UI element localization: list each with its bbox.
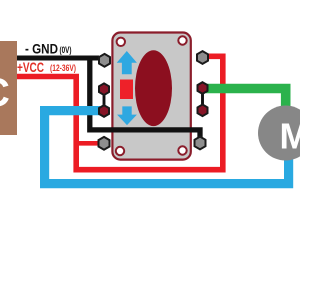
wire: green motor lead bbox=[206, 89, 286, 113]
svg-text:M: M bbox=[280, 116, 301, 157]
screw hole bottom-left bbox=[116, 147, 124, 155]
screw hole bottom-right bbox=[178, 146, 186, 154]
wire: black GND net bbox=[17, 58, 200, 138]
terminal R4 (gray hex) bbox=[195, 137, 206, 150]
svg-text:(0V): (0V) bbox=[60, 45, 72, 55]
link bar between left middle terminals bbox=[103, 93, 106, 107]
label +VCC (12-36V) bbox=[17, 59, 76, 75]
wire: blue motor lead bbox=[45, 111, 289, 184]
terminal R1 (gray hex) bbox=[197, 51, 208, 64]
screw hole top-right bbox=[178, 36, 186, 44]
link bar between right middle terminals bbox=[201, 92, 204, 106]
potentiometer knob (dark red ellipse) bbox=[135, 50, 172, 126]
terminal L2 (dark red hex) bbox=[99, 83, 109, 95]
terminal L4 (gray hex, VCC in) bbox=[99, 137, 110, 150]
screw hole top-left bbox=[117, 38, 125, 46]
wire: red +VCC net bbox=[17, 56, 223, 169]
terminal L3 (dark red hex) bbox=[99, 105, 109, 117]
svg-text:C: C bbox=[0, 71, 10, 115]
DC power supply PSU (cropped at left edge) bbox=[0, 41, 17, 135]
svg-text:(12-36V): (12-36V) bbox=[50, 63, 76, 73]
terminal R3 (dark red hex) bbox=[198, 105, 208, 117]
svg-text:- GND: - GND bbox=[25, 41, 58, 57]
motor M1 bbox=[258, 106, 313, 161]
module U1: speed controller board bbox=[112, 33, 190, 160]
blue up arrow (speed up) bbox=[117, 51, 137, 74]
label - GND (0V) bbox=[25, 41, 72, 57]
red stop square bbox=[120, 80, 133, 100]
terminal R2 (dark red hex, motor out) bbox=[198, 82, 208, 94]
svg-text:+VCC: +VCC bbox=[17, 59, 44, 75]
blue down arrow (speed down) bbox=[117, 106, 137, 125]
terminal L1 (gray hex, GND in) bbox=[99, 54, 110, 67]
